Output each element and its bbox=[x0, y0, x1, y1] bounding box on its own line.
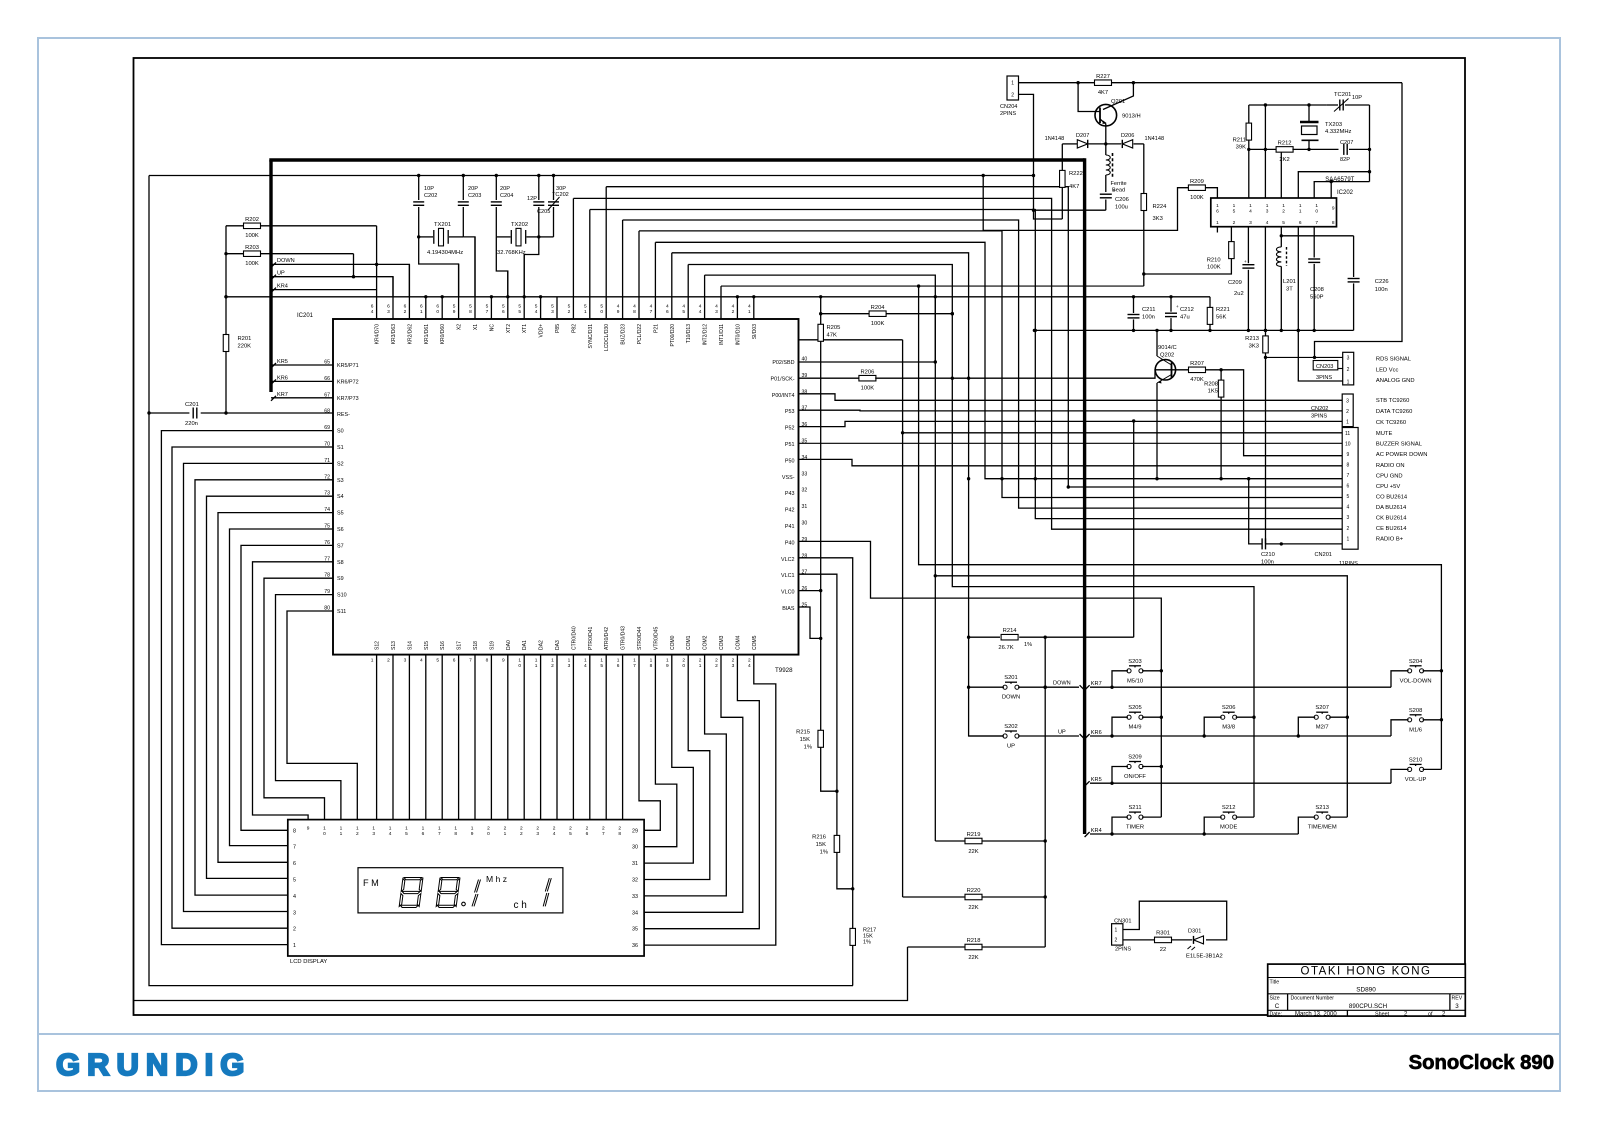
wire KR6 from bus to IC pin66 bbox=[271, 380, 333, 382]
svg-text:8: 8 bbox=[293, 828, 296, 834]
svg-text:Q201: Q201 bbox=[1111, 99, 1125, 105]
svg-text:D206: D206 bbox=[1121, 133, 1134, 139]
svg-text:1%: 1% bbox=[1024, 642, 1032, 648]
svg-text:LCD DISPLAY: LCD DISPLAY bbox=[290, 959, 327, 965]
wire pin48 PCL to CO BU2614 column bbox=[639, 231, 1342, 498]
svg-text:47u: 47u bbox=[1180, 315, 1190, 321]
wire CN203 pin2 LED Vcc stub bbox=[1338, 368, 1343, 370]
svg-text:3PINS: 3PINS bbox=[1311, 414, 1327, 420]
connector CN201 11PINS bbox=[1342, 428, 1358, 550]
svg-text:S7: S7 bbox=[337, 543, 344, 549]
wire CN204 pin1 power rail to outer loop bbox=[1019, 82, 1095, 84]
svg-text:9013/H: 9013/H bbox=[1122, 114, 1141, 120]
svg-text:2: 2 bbox=[748, 658, 751, 664]
wire TX202 left node to pin56 XT2 bbox=[496, 237, 508, 297]
wire R214 riser to CK TC9260 line bbox=[1133, 421, 1135, 637]
wire S8 to LCD pin9 bbox=[253, 562, 334, 820]
svg-text:S0: S0 bbox=[337, 429, 344, 435]
svg-text:P53: P53 bbox=[785, 409, 795, 415]
switch S204 VOL-DOWN bbox=[1408, 669, 1412, 673]
svg-text:6: 6 bbox=[1299, 220, 1302, 226]
svg-text:2: 2 bbox=[1282, 208, 1285, 214]
svg-text:of: of bbox=[1428, 1011, 1433, 1017]
svg-text:STB TC9260: STB TC9260 bbox=[1376, 398, 1409, 404]
svg-text:1: 1 bbox=[1233, 203, 1236, 209]
svg-text:S6: S6 bbox=[337, 527, 344, 533]
svg-text:AC POWER DOWN: AC POWER DOWN bbox=[1376, 452, 1428, 458]
svg-text:5: 5 bbox=[436, 658, 439, 664]
svg-text:5: 5 bbox=[1347, 494, 1350, 500]
resistor R208 1K5 bbox=[1220, 370, 1222, 381]
svg-text:82P: 82P bbox=[1340, 157, 1350, 163]
svg-text:1: 1 bbox=[584, 309, 587, 315]
wire P51 BUZZER to CN201 pin10 bbox=[799, 442, 1343, 444]
svg-text:33: 33 bbox=[802, 471, 808, 477]
wire pin50 LCDCL to CPU+5V column bbox=[606, 187, 1342, 487]
svg-text:7: 7 bbox=[1315, 220, 1318, 226]
svg-text:6: 6 bbox=[436, 304, 439, 310]
wire R205/bias ladder vertical bbox=[820, 297, 822, 730]
svg-text:4: 4 bbox=[584, 663, 587, 669]
svg-text:1K5: 1K5 bbox=[1208, 389, 1218, 395]
svg-text:VTR0/D45: VTR0/D45 bbox=[653, 626, 659, 650]
svg-text:9: 9 bbox=[307, 826, 310, 832]
svg-text:CN203: CN203 bbox=[1316, 364, 1333, 370]
svg-text:1: 1 bbox=[535, 663, 538, 669]
svg-text:3: 3 bbox=[404, 658, 407, 664]
svg-text:R220: R220 bbox=[967, 888, 981, 894]
svg-text:S213: S213 bbox=[1315, 805, 1329, 811]
svg-text:BUZZER SIGNAL: BUZZER SIGNAL bbox=[1376, 442, 1423, 448]
svg-text:CN204: CN204 bbox=[1000, 104, 1017, 110]
svg-text:KR3/D63: KR3/D63 bbox=[391, 324, 397, 345]
svg-text:5: 5 bbox=[453, 304, 456, 310]
svg-text:S202: S202 bbox=[1004, 724, 1018, 730]
svg-text:Size: Size bbox=[1270, 996, 1280, 1002]
wire S3 to LCD pin4 bbox=[195, 480, 333, 895]
svg-text:2: 2 bbox=[1346, 409, 1349, 415]
svg-text:31: 31 bbox=[802, 504, 808, 510]
svg-text:KR4/D70: KR4/D70 bbox=[375, 324, 381, 345]
svg-text:9: 9 bbox=[471, 831, 474, 837]
wire MUTE column riser bbox=[902, 340, 904, 897]
trimmer capacitor TC201 10P bbox=[1249, 104, 1327, 106]
svg-text:Date:: Date: bbox=[1270, 1011, 1282, 1017]
svg-text:R205: R205 bbox=[827, 325, 841, 331]
svg-text:c h: c h bbox=[514, 900, 527, 911]
svg-text:TC201: TC201 bbox=[1334, 92, 1351, 98]
svg-text:1: 1 bbox=[551, 658, 554, 664]
svg-text:UP: UP bbox=[1058, 730, 1066, 736]
svg-text:TX202: TX202 bbox=[511, 222, 528, 228]
svg-text:4.194304MHz: 4.194304MHz bbox=[427, 250, 463, 256]
svg-text:1: 1 bbox=[1299, 203, 1302, 209]
svg-text:D301: D301 bbox=[1188, 929, 1201, 935]
wire RES-/C201 ground return bbox=[149, 176, 853, 986]
svg-text:VSS-: VSS- bbox=[782, 475, 795, 481]
connector CN202 3PINS bbox=[1342, 394, 1353, 427]
svg-text:S5: S5 bbox=[337, 511, 344, 517]
svg-text:CN301: CN301 bbox=[1114, 918, 1131, 924]
svg-text:4: 4 bbox=[666, 304, 669, 310]
resistor R204 bbox=[821, 313, 870, 315]
svg-text:DA3: DA3 bbox=[555, 640, 561, 650]
LCD channel digit 1 bbox=[543, 878, 551, 906]
LCD display module body bbox=[288, 820, 644, 956]
svg-text:R222: R222 bbox=[1069, 171, 1083, 177]
wire KR4 from bus to pin64 bbox=[271, 289, 377, 291]
svg-text:S212: S212 bbox=[1222, 805, 1236, 811]
svg-text:100K: 100K bbox=[245, 261, 259, 267]
svg-text:XT1: XT1 bbox=[522, 324, 528, 333]
svg-text:4: 4 bbox=[699, 309, 702, 315]
svg-text:C206: C206 bbox=[1115, 197, 1129, 203]
svg-text:0: 0 bbox=[682, 663, 685, 669]
svg-text:1: 1 bbox=[535, 658, 538, 664]
svg-text:15K: 15K bbox=[800, 737, 810, 743]
wire KR6 row bbox=[1090, 735, 1391, 737]
LED D301 E1L5E-3B1A2 bbox=[1194, 936, 1204, 944]
switch S207 M2/7 bbox=[1314, 715, 1318, 719]
wire S201/S202 right riser bbox=[1044, 637, 1046, 947]
svg-text:4: 4 bbox=[732, 304, 735, 310]
svg-text:9: 9 bbox=[1347, 452, 1350, 458]
wire IC202 pin5 node to C226 bbox=[1281, 235, 1353, 237]
svg-text:M3/8: M3/8 bbox=[1222, 725, 1235, 731]
wire KR7 from bus to IC pin67 bbox=[271, 397, 333, 399]
wire C206 to ground via CN204 pin2 rail bbox=[1034, 209, 1106, 211]
svg-text:R213: R213 bbox=[1245, 336, 1259, 342]
wire pin47 to CPU GND column bbox=[655, 242, 1342, 478]
svg-text:1: 1 bbox=[633, 658, 636, 664]
capacitor C201 bbox=[149, 412, 189, 414]
resistor R213 3K3 bbox=[1265, 330, 1267, 336]
svg-text:4: 4 bbox=[633, 304, 636, 310]
svg-text:C202: C202 bbox=[424, 193, 437, 199]
wire R217 to bottom rail bbox=[852, 946, 854, 986]
IC201 top pin risers bbox=[376, 226, 378, 319]
svg-text:IC201: IC201 bbox=[297, 313, 314, 319]
capacitor C203 bbox=[462, 176, 464, 201]
svg-text:1: 1 bbox=[1249, 203, 1252, 209]
svg-text:KR6: KR6 bbox=[277, 376, 288, 382]
wire IC202 pin13 pin12 risers bbox=[1264, 105, 1266, 198]
crystal TX201 bbox=[419, 236, 433, 238]
svg-text:9: 9 bbox=[617, 309, 620, 315]
resistor R202 bbox=[226, 225, 244, 227]
ferrite bead inductor bbox=[1105, 144, 1107, 155]
svg-text:6: 6 bbox=[404, 304, 407, 310]
resistor R205 47K bbox=[818, 324, 824, 341]
svg-text:2: 2 bbox=[387, 658, 390, 664]
svg-text:32: 32 bbox=[632, 878, 638, 884]
svg-text:1%: 1% bbox=[820, 850, 828, 856]
wire MUTE to CN201 pin11 bbox=[903, 432, 1343, 434]
wire ground rail y=175.5 bbox=[149, 175, 1034, 177]
svg-text:COM0: COM0 bbox=[670, 635, 676, 650]
connector CN301 2PINS bbox=[1112, 924, 1123, 945]
svg-text:S10: S10 bbox=[337, 593, 347, 599]
capacitor C226 100n bbox=[1353, 236, 1355, 277]
svg-text:8: 8 bbox=[1332, 220, 1335, 226]
svg-text:X2: X2 bbox=[457, 324, 463, 330]
svg-text:S211: S211 bbox=[1128, 805, 1141, 811]
svg-text:2: 2 bbox=[699, 658, 702, 664]
svg-text:5: 5 bbox=[502, 304, 505, 310]
resistor R214 26.7K 1% bbox=[969, 636, 1000, 638]
svg-text:S8: S8 bbox=[337, 560, 344, 566]
wire CPU+5V column dots bbox=[1067, 485, 1070, 488]
svg-text:5: 5 bbox=[518, 309, 521, 315]
svg-text:9: 9 bbox=[666, 663, 669, 669]
svg-text:DA2: DA2 bbox=[539, 640, 545, 650]
svg-text:RDS SIGNAL: RDS SIGNAL bbox=[1376, 357, 1412, 363]
svg-text:P52: P52 bbox=[785, 426, 795, 432]
svg-text:15K: 15K bbox=[816, 842, 826, 848]
svg-text:4: 4 bbox=[715, 304, 718, 310]
svg-text:1%: 1% bbox=[863, 940, 871, 946]
svg-text:1: 1 bbox=[323, 826, 326, 832]
svg-text:220n: 220n bbox=[185, 421, 198, 427]
svg-text:4: 4 bbox=[535, 309, 538, 315]
resistor R210 100K bbox=[1230, 227, 1232, 242]
svg-text:6: 6 bbox=[422, 831, 425, 837]
svg-text:RADIO B+: RADIO B+ bbox=[1376, 537, 1404, 543]
svg-text:8: 8 bbox=[650, 663, 653, 669]
svg-text:3: 3 bbox=[568, 663, 571, 669]
svg-text:S16: S16 bbox=[440, 641, 446, 650]
svg-text:VLC1: VLC1 bbox=[781, 573, 795, 579]
wire pullup rail vertical x=226 bbox=[225, 226, 227, 413]
svg-text:2: 2 bbox=[682, 658, 685, 664]
svg-text:1: 1 bbox=[438, 826, 441, 832]
svg-text:STR0/D44: STR0/D44 bbox=[637, 626, 643, 650]
svg-text:3: 3 bbox=[387, 309, 390, 315]
switch S208 M1/6 bbox=[1408, 718, 1412, 722]
svg-text:S12: S12 bbox=[375, 641, 381, 650]
svg-text:7: 7 bbox=[438, 831, 441, 837]
LCD 7-segment digit 8 (units) bbox=[436, 878, 460, 908]
svg-text:100K: 100K bbox=[1207, 265, 1221, 271]
svg-text:CO BU2614: CO BU2614 bbox=[1376, 494, 1408, 500]
svg-text:30: 30 bbox=[802, 521, 808, 527]
wire TC201 right to IC202 pins bbox=[1369, 105, 1371, 182]
svg-text:Title: Title bbox=[1270, 979, 1280, 985]
svg-text:3: 3 bbox=[1249, 220, 1252, 226]
svg-text:INT2/D12: INT2/D12 bbox=[703, 324, 709, 346]
resistor R219 22K bbox=[934, 576, 936, 841]
wire VLC0 to bias ladder bbox=[799, 590, 821, 592]
cpu IC201 T9928 body bbox=[333, 319, 799, 655]
svg-text:1: 1 bbox=[1216, 203, 1219, 209]
svg-text:20P: 20P bbox=[468, 186, 478, 192]
svg-text:DOWN: DOWN bbox=[1053, 681, 1071, 687]
svg-text:2: 2 bbox=[520, 826, 523, 832]
svg-text:S19: S19 bbox=[489, 641, 495, 650]
svg-text:1: 1 bbox=[340, 826, 343, 832]
svg-text:P51: P51 bbox=[785, 442, 795, 448]
svg-text:7: 7 bbox=[1347, 473, 1350, 479]
svg-text:1: 1 bbox=[748, 309, 751, 315]
crystal TX202 bbox=[496, 236, 510, 238]
svg-text:30: 30 bbox=[632, 845, 638, 851]
resistor R211 39K bbox=[1248, 105, 1250, 123]
svg-text:32: 32 bbox=[802, 488, 808, 494]
svg-text:RADIO ON: RADIO ON bbox=[1376, 463, 1405, 469]
svg-text:8: 8 bbox=[1347, 462, 1350, 468]
wire bottom long horizontal to frame bbox=[134, 947, 908, 1001]
svg-text:100K: 100K bbox=[861, 386, 875, 392]
svg-text:100u: 100u bbox=[1115, 205, 1128, 211]
svg-text:S13: S13 bbox=[391, 641, 397, 650]
crystal TX203 4.332MHz bbox=[1308, 105, 1310, 122]
svg-text:6: 6 bbox=[1216, 208, 1219, 214]
wire pin49 BUZ to DA BU2614 column bbox=[623, 220, 1343, 508]
svg-text:1: 1 bbox=[293, 943, 296, 949]
wire VLC2 to bias ladder bbox=[799, 558, 853, 889]
svg-text:R216: R216 bbox=[812, 835, 826, 841]
svg-text:XT2: XT2 bbox=[506, 324, 512, 333]
wire KR5 row bbox=[1090, 782, 1391, 784]
svg-text:LED Vcc: LED Vcc bbox=[1376, 368, 1399, 374]
svg-text:0: 0 bbox=[487, 831, 490, 837]
wire pin46 to S201/S202 column bbox=[672, 253, 1005, 736]
wire RDS SIGNAL from R213 to CN203 pin3 bbox=[1266, 356, 1343, 358]
svg-text:CPU +5V: CPU +5V bbox=[1376, 484, 1400, 490]
svg-text:5: 5 bbox=[469, 304, 472, 310]
svg-text:4: 4 bbox=[748, 304, 751, 310]
svg-text:March 13, 2000: March 13, 2000 bbox=[1295, 1011, 1337, 1017]
wire P02/SBD line bbox=[799, 361, 936, 363]
svg-text:R206: R206 bbox=[860, 370, 874, 376]
wire pin52 to CE BU2614 column bbox=[573, 198, 1342, 529]
svg-text:TC202: TC202 bbox=[552, 192, 569, 198]
svg-text:1: 1 bbox=[504, 831, 507, 837]
svg-text:1: 1 bbox=[1266, 203, 1269, 209]
connector CN204 2PINS bbox=[1007, 76, 1019, 100]
IC202 SAA6579T body bbox=[1211, 198, 1337, 227]
svg-text:ATR0/D42: ATR0/D42 bbox=[604, 627, 610, 650]
svg-text:+: + bbox=[1176, 304, 1179, 309]
svg-text:4K7: 4K7 bbox=[1098, 90, 1108, 96]
svg-text:5: 5 bbox=[1233, 208, 1236, 214]
svg-text:890CPU.SCH: 890CPU.SCH bbox=[1349, 1003, 1387, 1010]
svg-text:1: 1 bbox=[1115, 928, 1118, 934]
svg-text:E1L5E-3B1A2: E1L5E-3B1A2 bbox=[1186, 954, 1223, 960]
title block bbox=[1268, 964, 1466, 1016]
svg-text:C209: C209 bbox=[1228, 280, 1242, 286]
svg-text:4: 4 bbox=[748, 663, 751, 669]
svg-text:3: 3 bbox=[372, 831, 375, 837]
svg-text:4: 4 bbox=[389, 831, 392, 837]
resistor R217 15K 1% bbox=[852, 889, 854, 929]
resistor R301 22 bbox=[1155, 937, 1172, 943]
svg-text:32.768KHz: 32.768KHz bbox=[497, 250, 526, 256]
wire IC202 pin6 down bbox=[1297, 227, 1299, 331]
svg-text:CN202: CN202 bbox=[1311, 406, 1328, 412]
svg-text:VLC2: VLC2 bbox=[781, 557, 795, 563]
wire R209 to IC202 pin16 bbox=[1205, 188, 1217, 198]
svg-text:P01/SCK-: P01/SCK- bbox=[771, 376, 795, 382]
svg-text:P00/INT4: P00/INT4 bbox=[772, 393, 795, 399]
svg-text:Sheet: Sheet bbox=[1375, 1011, 1390, 1017]
wire S11 to LCD pin12 bbox=[287, 611, 357, 820]
schematic black frame bbox=[134, 58, 1466, 1015]
svg-text:560P: 560P bbox=[1310, 295, 1324, 301]
svg-text:S207: S207 bbox=[1315, 705, 1329, 711]
svg-text:COM2: COM2 bbox=[703, 635, 709, 650]
svg-text:1: 1 bbox=[518, 658, 521, 664]
svg-text:4: 4 bbox=[371, 309, 374, 315]
svg-text:KR2/D62: KR2/D62 bbox=[407, 324, 413, 345]
svg-text:5: 5 bbox=[600, 663, 603, 669]
svg-text:8: 8 bbox=[633, 309, 636, 315]
svg-text:3: 3 bbox=[1347, 515, 1350, 521]
svg-text:C201: C201 bbox=[185, 402, 199, 408]
svg-text:C208: C208 bbox=[1310, 287, 1324, 293]
svg-text:M5/10: M5/10 bbox=[1127, 678, 1143, 684]
svg-text:1N4148: 1N4148 bbox=[1145, 136, 1165, 142]
svg-text:P82: P82 bbox=[571, 324, 577, 333]
svg-text:S210: S210 bbox=[1409, 757, 1423, 763]
svg-text:NC: NC bbox=[489, 324, 495, 332]
svg-text:DA1: DA1 bbox=[522, 640, 528, 650]
svg-text:3: 3 bbox=[1455, 1003, 1459, 1010]
svg-text:S206: S206 bbox=[1222, 705, 1236, 711]
wire KR7 row bbox=[1090, 686, 1391, 688]
wire S1 to LCD pin2 bbox=[172, 447, 333, 928]
svg-text:8: 8 bbox=[618, 831, 621, 837]
svg-text:4: 4 bbox=[293, 894, 296, 900]
wire CN203 pin1 ANALOG GND to ground rail bbox=[1298, 330, 1342, 381]
wire DOWN from bus to pin62 bbox=[271, 264, 409, 296]
wire VDD rail above IC201 bbox=[226, 296, 1210, 298]
svg-text:4: 4 bbox=[1266, 220, 1269, 226]
svg-text:R210: R210 bbox=[1207, 258, 1221, 264]
wire R215 bottom jog to R216 bbox=[821, 747, 837, 791]
svg-text:6: 6 bbox=[502, 309, 505, 315]
svg-text:31: 31 bbox=[632, 861, 638, 867]
svg-text:DA BU2614: DA BU2614 bbox=[1376, 505, 1407, 511]
svg-text:KR7: KR7 bbox=[277, 392, 288, 398]
svg-text:1: 1 bbox=[1347, 536, 1350, 542]
svg-text:KR1/D61: KR1/D61 bbox=[424, 324, 430, 345]
svg-text:8: 8 bbox=[469, 309, 472, 315]
svg-text:5: 5 bbox=[486, 304, 489, 310]
transistor Q201 9013/H bbox=[1095, 104, 1117, 126]
svg-text:ON/OFF: ON/OFF bbox=[1124, 774, 1146, 780]
svg-text:2: 2 bbox=[293, 927, 296, 933]
svg-text:M4/9: M4/9 bbox=[1129, 725, 1142, 731]
svg-text:P43: P43 bbox=[785, 491, 795, 497]
capacitor C202 bbox=[418, 176, 420, 201]
svg-text:F M: F M bbox=[363, 878, 379, 888]
wire VLC1 to bias ladder bbox=[799, 574, 837, 791]
svg-text:10P: 10P bbox=[424, 186, 434, 192]
svg-text:7: 7 bbox=[633, 663, 636, 669]
capacitor C211 100n bbox=[1133, 297, 1135, 313]
resistor R221 56K bbox=[1209, 297, 1211, 308]
switch S209 ON/OFF bbox=[1127, 764, 1131, 768]
svg-text:5: 5 bbox=[584, 304, 587, 310]
LCD 7-segment digit 1 after decimal bbox=[472, 880, 481, 907]
svg-text:R204: R204 bbox=[871, 305, 886, 311]
svg-text:Document Number: Document Number bbox=[1291, 996, 1335, 1002]
svg-text:SI/D03: SI/D03 bbox=[752, 324, 758, 340]
svg-text:S15: S15 bbox=[424, 641, 430, 650]
svg-text:R209: R209 bbox=[1190, 179, 1204, 185]
svg-text:LCDCL/D30: LCDCL/D30 bbox=[604, 324, 610, 351]
